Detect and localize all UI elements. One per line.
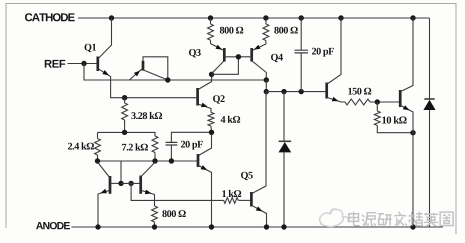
resistor R6 800ohm: [152, 206, 158, 227]
resistor R5 7.2k: [152, 136, 158, 161]
resistor R7 1k: [224, 198, 239, 204]
node cathode-Q7C junction: [410, 15, 415, 20]
transistor M1 base wire: [111, 182, 122, 184]
label R4 2.4k: [68, 142, 94, 149]
transistor M1 emitter: [98, 190, 110, 227]
transistor M2 collector: [141, 162, 155, 176]
transistor QD base loop: [143, 57, 168, 80]
wire R7 to Q5 base: [238, 199, 251, 201]
transistor Q4 base bar: [250, 48, 253, 62]
label C2 20pF: [181, 141, 203, 150]
capacitor C1 lead bottom: [300, 53, 302, 92]
node cathode-C1 junction: [299, 15, 304, 20]
diode D2 triangle: [423, 100, 435, 110]
node Q1E-R3 junction: [122, 95, 127, 100]
label R3 3.28k: [131, 112, 162, 119]
wire mirror base to R7: [131, 183, 224, 200]
node anode-M1 junction: [95, 224, 100, 229]
node B Q5C junction: [264, 89, 269, 94]
capacitor C1 plates: [295, 50, 309, 53]
wire Q1E to Q2 base: [125, 97, 198, 99]
label C1 20pF: [312, 48, 334, 57]
wire REF to mid rail: [84, 64, 266, 81]
diode D2 cathode bar: [424, 98, 434, 100]
wire Q3-Q4 base tie: [224, 56, 251, 58]
resistor R3 3.28k: [122, 98, 128, 133]
label R5 7.2k: [122, 143, 148, 150]
transistor Q1 emitter arrow: [102, 70, 109, 75]
capacitor C2 bottom lead: [170, 145, 172, 161]
transistor QM emitter: [199, 166, 212, 228]
transistor Q3 collector: [212, 61, 224, 74]
transistor Q2 base bar: [196, 88, 199, 106]
node A Q4C junction: [264, 77, 269, 82]
node C2 bottom junction: [169, 158, 174, 163]
wire bandgap top rail: [98, 132, 156, 136]
label R6 800ohm: [162, 210, 185, 217]
transistor M2 base bar: [139, 176, 142, 194]
transistor QD emitter: [129, 68, 142, 80]
node REF-base junction: [81, 61, 86, 66]
transistor Q1 emitter: [98, 69, 124, 98]
diode D2 lead bottom: [429, 110, 431, 227]
transistor M2 emitter: [141, 190, 154, 206]
label R1 800ohm: [220, 27, 243, 34]
label R10 4k: [221, 116, 241, 123]
node E Q7 base junction: [375, 99, 380, 104]
transistor Q7 emitter arrow: [403, 105, 410, 110]
node Q2C-Q3C junction: [209, 72, 214, 77]
wire cathode rail corner: [428, 17, 431, 19]
diode D1 lead top: [283, 92, 285, 142]
node anode-QM junction: [209, 224, 214, 229]
wire cathode rail: [78, 17, 429, 19]
wire mirror base drop: [120, 161, 122, 183]
transistor Q1 collector: [98, 18, 111, 59]
transistor Q5 base bar: [250, 192, 253, 207]
node QM collector junction: [209, 130, 214, 135]
label Q5: [241, 172, 253, 180]
wire mirror base tie: [121, 182, 140, 184]
transistor Q5 collector: [252, 92, 266, 194]
node anode-D1 junction: [281, 224, 286, 229]
node anode-R6 junction: [152, 224, 157, 229]
node cathode-Q1C junction: [109, 15, 114, 20]
transistor Q3 emitter arrow: [216, 45, 223, 50]
node mirror base junction 2: [128, 181, 133, 186]
label Q4: [271, 54, 283, 62]
capacitor C2 top lead: [171, 132, 211, 142]
watermark text (decorative): [349, 212, 360, 226]
transistor QM collector: [199, 132, 212, 155]
transistor M1 base bar: [109, 176, 112, 194]
transistor Q2 collector: [198, 74, 212, 89]
label R2 800ohm: [274, 27, 297, 34]
transistor Q2 emitter arrow: [201, 103, 208, 108]
node C diode D1 junction: [281, 89, 286, 94]
transistor Q5 emitter: [252, 206, 267, 228]
resistor R1 800ohm: [208, 18, 214, 44]
label Q2: [213, 95, 225, 103]
resistor R10 4k: [208, 112, 214, 132]
capacitor C2 plates: [166, 142, 178, 145]
node cathode-R1 junction: [208, 15, 213, 20]
node anode-Q7 junction: [410, 224, 415, 229]
resistor R2 800ohm: [263, 18, 269, 44]
label Q3: [189, 49, 201, 57]
node Q3-Q4 base junction: [236, 54, 241, 59]
diode D1 cathode bar: [279, 140, 292, 142]
node R5 bottom junction: [152, 158, 157, 163]
capacitor C1 lead top: [300, 18, 302, 50]
label ANODE: [36, 222, 70, 229]
resistor R4 2.4k: [95, 132, 101, 161]
node R4 bottom junction: [95, 158, 100, 163]
resistor R8 150ohm: [345, 99, 370, 105]
wire REF lead: [68, 63, 98, 65]
diode D2 lead top: [429, 18, 431, 99]
wire mirror rail: [98, 160, 198, 162]
transistor Q6 collector: [327, 18, 341, 84]
diode D1 triangle: [279, 142, 292, 152]
wire R8 to nodeE: [370, 101, 400, 103]
node anode-Q5 junction: [264, 224, 269, 229]
transistor QD emitter arrow: [134, 71, 140, 77]
transistor Q5 emitter arrow: [256, 206, 263, 211]
transistor QD base bar: [142, 61, 145, 71]
transistor QD collector: [143, 70, 167, 80]
transistor Q1 base bar: [96, 57, 99, 72]
node R9-Q7E junction: [410, 130, 415, 135]
node D C1 junction: [299, 89, 304, 94]
transistor Q6 emitter arrow: [332, 97, 339, 102]
transistor Q6 base bar: [325, 83, 328, 99]
watermark logo (decorative): [320, 209, 349, 227]
transistor M2 emitter arrow: [145, 190, 152, 195]
wire comp rail: [266, 91, 326, 93]
transistor Q6 emitter: [327, 98, 345, 103]
transistor M1 collector: [98, 162, 110, 178]
diode D1 lead bottom: [283, 152, 285, 227]
transistor Q7 base bar: [399, 90, 402, 107]
wire anode rail: [72, 226, 444, 228]
transistor Q4 collector: [252, 61, 266, 80]
transistor Q7 collector: [401, 18, 413, 92]
label R9 10k: [382, 116, 406, 123]
node mirror base junction 1: [118, 181, 123, 186]
label CATHODE: [25, 13, 75, 21]
transistor Q3 emitter: [211, 44, 224, 51]
node cathode-R2 junction: [263, 15, 268, 20]
transistor Q3 base bar: [223, 48, 226, 62]
transistor QM emitter arrow: [201, 165, 208, 170]
transistor Q4 emitter: [252, 44, 266, 51]
label Q1: [84, 44, 96, 52]
transistor Q2 emitter: [198, 104, 211, 112]
transistor Q4 emitter arrow: [254, 45, 261, 50]
label REF: [45, 60, 66, 68]
transistor Q7 emitter: [401, 106, 413, 228]
node QD collector-base junction: [165, 77, 170, 82]
transistor M1 emitter arrow: [100, 189, 107, 194]
wire Q3 mirror tie: [212, 57, 239, 75]
wire nodeA to nodeB: [265, 80, 267, 92]
resistor R9 10k: [374, 102, 413, 133]
node R3 bottom junction: [122, 130, 127, 135]
label R8 150ohm: [348, 88, 371, 95]
label R7 1k: [222, 190, 241, 197]
transistor QM base bar: [197, 154, 200, 167]
node cathode-Q6C junction: [338, 15, 343, 20]
